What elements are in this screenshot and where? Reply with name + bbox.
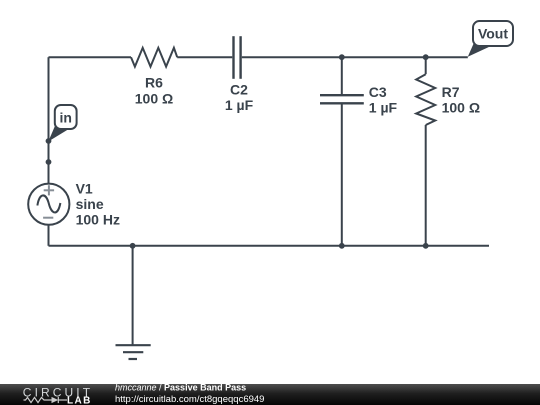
wire top-left horizontal segment xyxy=(49,56,132,58)
svg-text:sine: sine xyxy=(76,196,104,212)
svg-text:1 µF: 1 µF xyxy=(369,99,398,115)
wire C3 top lead xyxy=(341,57,343,94)
node B junction dot (R7 top) xyxy=(423,54,429,60)
wire node B to Vout tap xyxy=(426,56,468,58)
wire R6 to C2 xyxy=(177,56,232,58)
svg-text:LAB: LAB xyxy=(67,395,92,405)
svg-text:R6: R6 xyxy=(145,74,163,90)
wire V1 bottom lead xyxy=(48,225,50,246)
svg-text:C3: C3 xyxy=(369,84,387,100)
svg-text:hmccanne / Passive Band Pass: hmccanne / Passive Band Pass xyxy=(115,382,246,392)
svg-text:1 µF: 1 µF xyxy=(225,97,254,113)
junction dot ground xyxy=(130,243,136,249)
svg-text:100 Ω: 100 Ω xyxy=(442,99,480,115)
wire R7 bottom lead xyxy=(425,125,427,246)
svg-text:http://circuitlab.com/ct8gqeqq: http://circuitlab.com/ct8gqeqqc6949 xyxy=(115,394,264,405)
node dot at in flag xyxy=(46,138,52,144)
svg-text:C2: C2 xyxy=(230,81,248,97)
svg-text:100 Ω: 100 Ω xyxy=(135,91,173,107)
node dot above V1 xyxy=(46,159,52,165)
net flag in xyxy=(48,105,76,142)
svg-text:in: in xyxy=(59,110,71,126)
net flag Vout xyxy=(468,21,513,57)
footer bar xyxy=(0,384,540,405)
capacitor C3 xyxy=(320,95,364,103)
svg-text:R7: R7 xyxy=(442,84,460,100)
capacitor C2 xyxy=(234,36,241,79)
ground xyxy=(116,345,151,359)
voltage source V1 xyxy=(28,184,69,225)
CircuitLab logo resistor-diode glyph xyxy=(24,397,68,403)
junction dot R7 bottom xyxy=(423,243,429,249)
resistor R6 xyxy=(131,48,177,67)
node A junction dot (C3 top) xyxy=(339,54,345,60)
svg-text:V1: V1 xyxy=(76,180,93,196)
junction dot C3 bottom xyxy=(339,243,345,249)
wire left vertical from top to V1 xyxy=(48,57,50,184)
wire node A to node B xyxy=(342,56,426,58)
wire C3 bottom lead xyxy=(341,105,343,246)
wire R7 top lead xyxy=(425,57,427,74)
wire C2 to node A xyxy=(242,56,342,58)
svg-text:100 Hz: 100 Hz xyxy=(76,212,120,228)
svg-text:Vout: Vout xyxy=(478,26,508,42)
wire bottom horizontal xyxy=(49,245,490,247)
resistor R7 xyxy=(416,74,435,125)
wire ground stem xyxy=(132,246,134,345)
